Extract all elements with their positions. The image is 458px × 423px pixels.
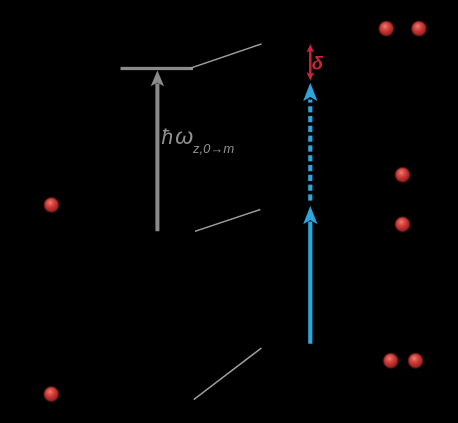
atom top-right pair dot 1 [379,21,394,36]
red detuning double arrow delta [306,44,314,80]
atom bottom-right pair dot 1 [384,354,399,369]
slant connector lower level (middle) [195,210,260,232]
label hbar omega_{z,0->m} [162,123,235,156]
excited level |e> horizontal line [121,67,194,70]
svg-text:δ: δ [312,52,324,73]
svg-text:ħω: ħω [162,123,194,149]
blue solid arrow (lower) [303,206,317,344]
gray transition arrow hw_z [151,70,164,231]
slant connector ground level (bottom) [194,348,262,400]
svg-text:z,0→m: z,0→m [192,141,234,156]
atom right middle upper [395,168,410,183]
slant connector from excited level to upper motional level [190,44,262,68]
atom mid-left [44,198,59,213]
atom bottom-left [44,387,59,402]
blue dashed arrow (upper) [303,83,317,201]
atom right middle lower [395,217,410,232]
atom top-right pair dot 2 [412,21,427,36]
atom bottom-right pair dot 2 [408,354,423,369]
